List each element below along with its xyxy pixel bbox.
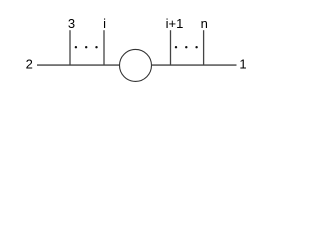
circle element (network node) [120,49,152,81]
wire: branch i [103,30,105,65]
wire: left horizontal lead to terminal 2 [37,64,120,66]
svg-text:i: i [103,16,106,31]
svg-text:1: 1 [239,57,246,72]
svg-text:i+1: i+1 [166,16,184,31]
wire: branch n [203,30,205,65]
wire: branch i+1 [170,30,172,65]
wire: right horizontal lead to terminal 1 [152,64,237,66]
svg-text:n: n [201,16,208,31]
dots: ellipsis between branch 3 and branch i [75,46,98,48]
wire: branch 3 [69,30,71,65]
svg-text:2: 2 [26,57,33,72]
dots: ellipsis between branch i+1 and branch n [175,46,198,48]
svg-text:3: 3 [68,16,75,31]
